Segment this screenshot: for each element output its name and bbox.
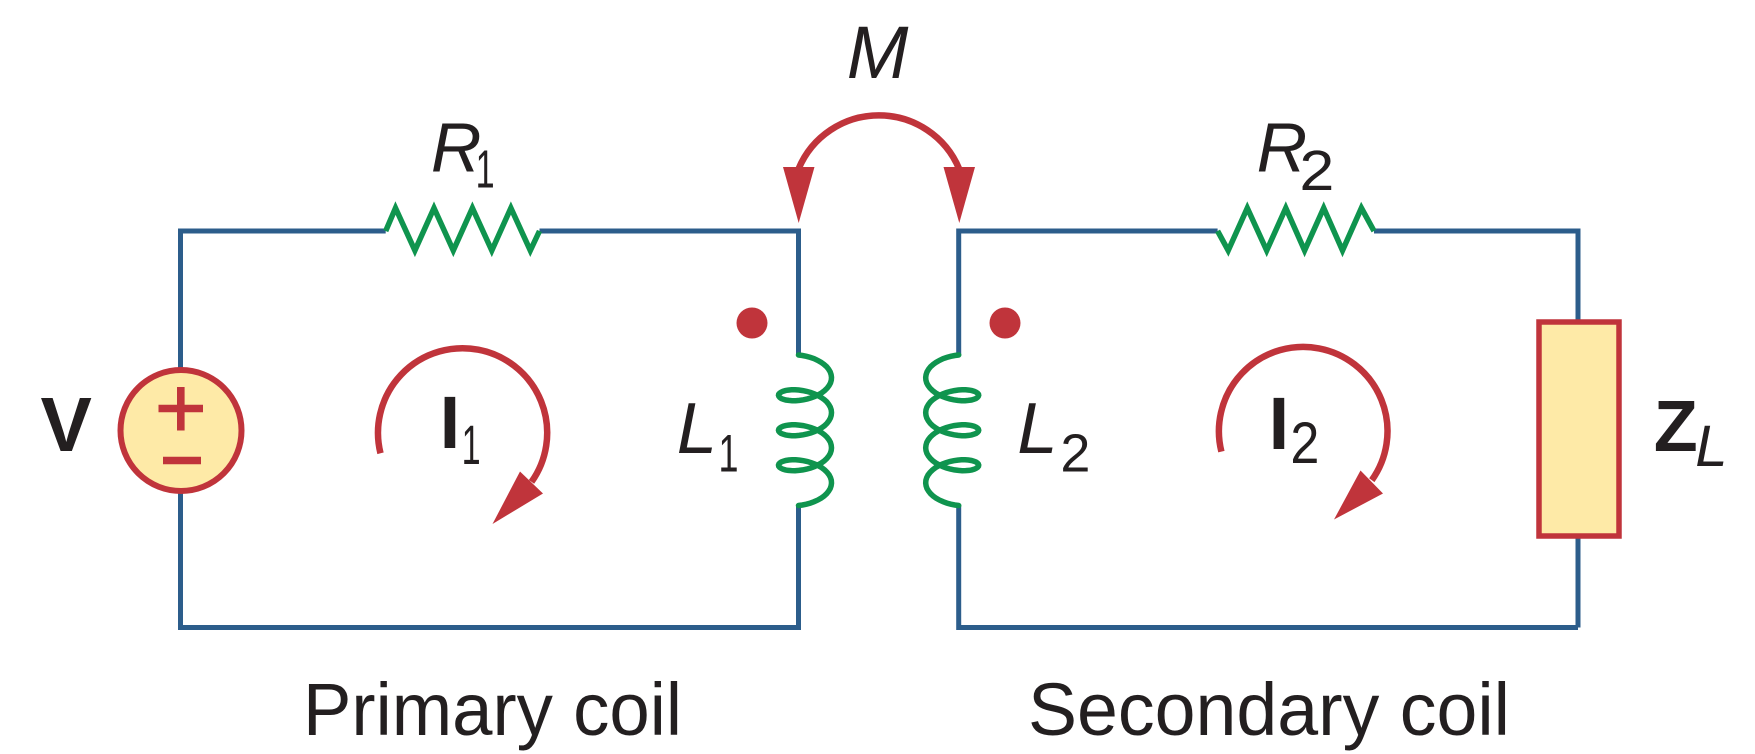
svg-text:Secondary coil: Secondary coil — [1028, 668, 1510, 751]
load impedance ZL — [1539, 322, 1619, 536]
wire primary loop: left vertical top + top wire to R1 — [181, 231, 386, 368]
voltage source V — [121, 370, 242, 491]
mutual inductance arc M — [799, 115, 960, 169]
inductor L2 — [926, 355, 979, 506]
svg-text:Primary coil: Primary coil — [303, 668, 682, 751]
dot marker of L2 — [990, 308, 1021, 339]
resistor R2 — [1218, 208, 1374, 251]
svg-text:R: R — [431, 109, 482, 187]
current arrow I1 — [378, 348, 547, 482]
wire secondary loop: left vertical above L2 + top wire to R2 — [959, 231, 1218, 355]
svg-text:Z: Z — [1654, 387, 1698, 467]
arrowhead I1 — [493, 472, 544, 525]
svg-text:L: L — [1017, 388, 1057, 469]
svg-text:V: V — [41, 382, 92, 468]
svg-text:L: L — [677, 388, 717, 469]
wire secondary loop: bottom wire + left vertical below L2 — [959, 506, 1578, 628]
svg-text:2: 2 — [1290, 411, 1319, 476]
dot marker of L1 — [737, 308, 768, 339]
wire primary loop: below L1 + bottom wire + left vertical up to source — [181, 494, 799, 628]
wire primary loop: top wire after R1 + right vertical down to L1 — [540, 231, 799, 355]
svg-text:1: 1 — [462, 413, 481, 476]
svg-text:2: 2 — [1299, 139, 1334, 203]
svg-text:1: 1 — [476, 140, 495, 200]
svg-text:M: M — [847, 11, 909, 94]
svg-text:1: 1 — [719, 424, 739, 483]
resistor R1 — [386, 208, 540, 251]
M arrowhead left — [783, 167, 815, 223]
svg-text:I: I — [1269, 382, 1290, 465]
svg-text:L: L — [1695, 414, 1727, 479]
arrowhead I2 — [1334, 471, 1383, 520]
svg-text:I: I — [440, 381, 461, 464]
M arrowhead right — [944, 167, 976, 223]
inductor L1 — [779, 355, 832, 506]
svg-text:2: 2 — [1060, 423, 1090, 483]
current arrow I2 — [1219, 347, 1388, 480]
wire secondary loop: top wire after R2 + right vertical down to ZL — [1374, 231, 1578, 628]
